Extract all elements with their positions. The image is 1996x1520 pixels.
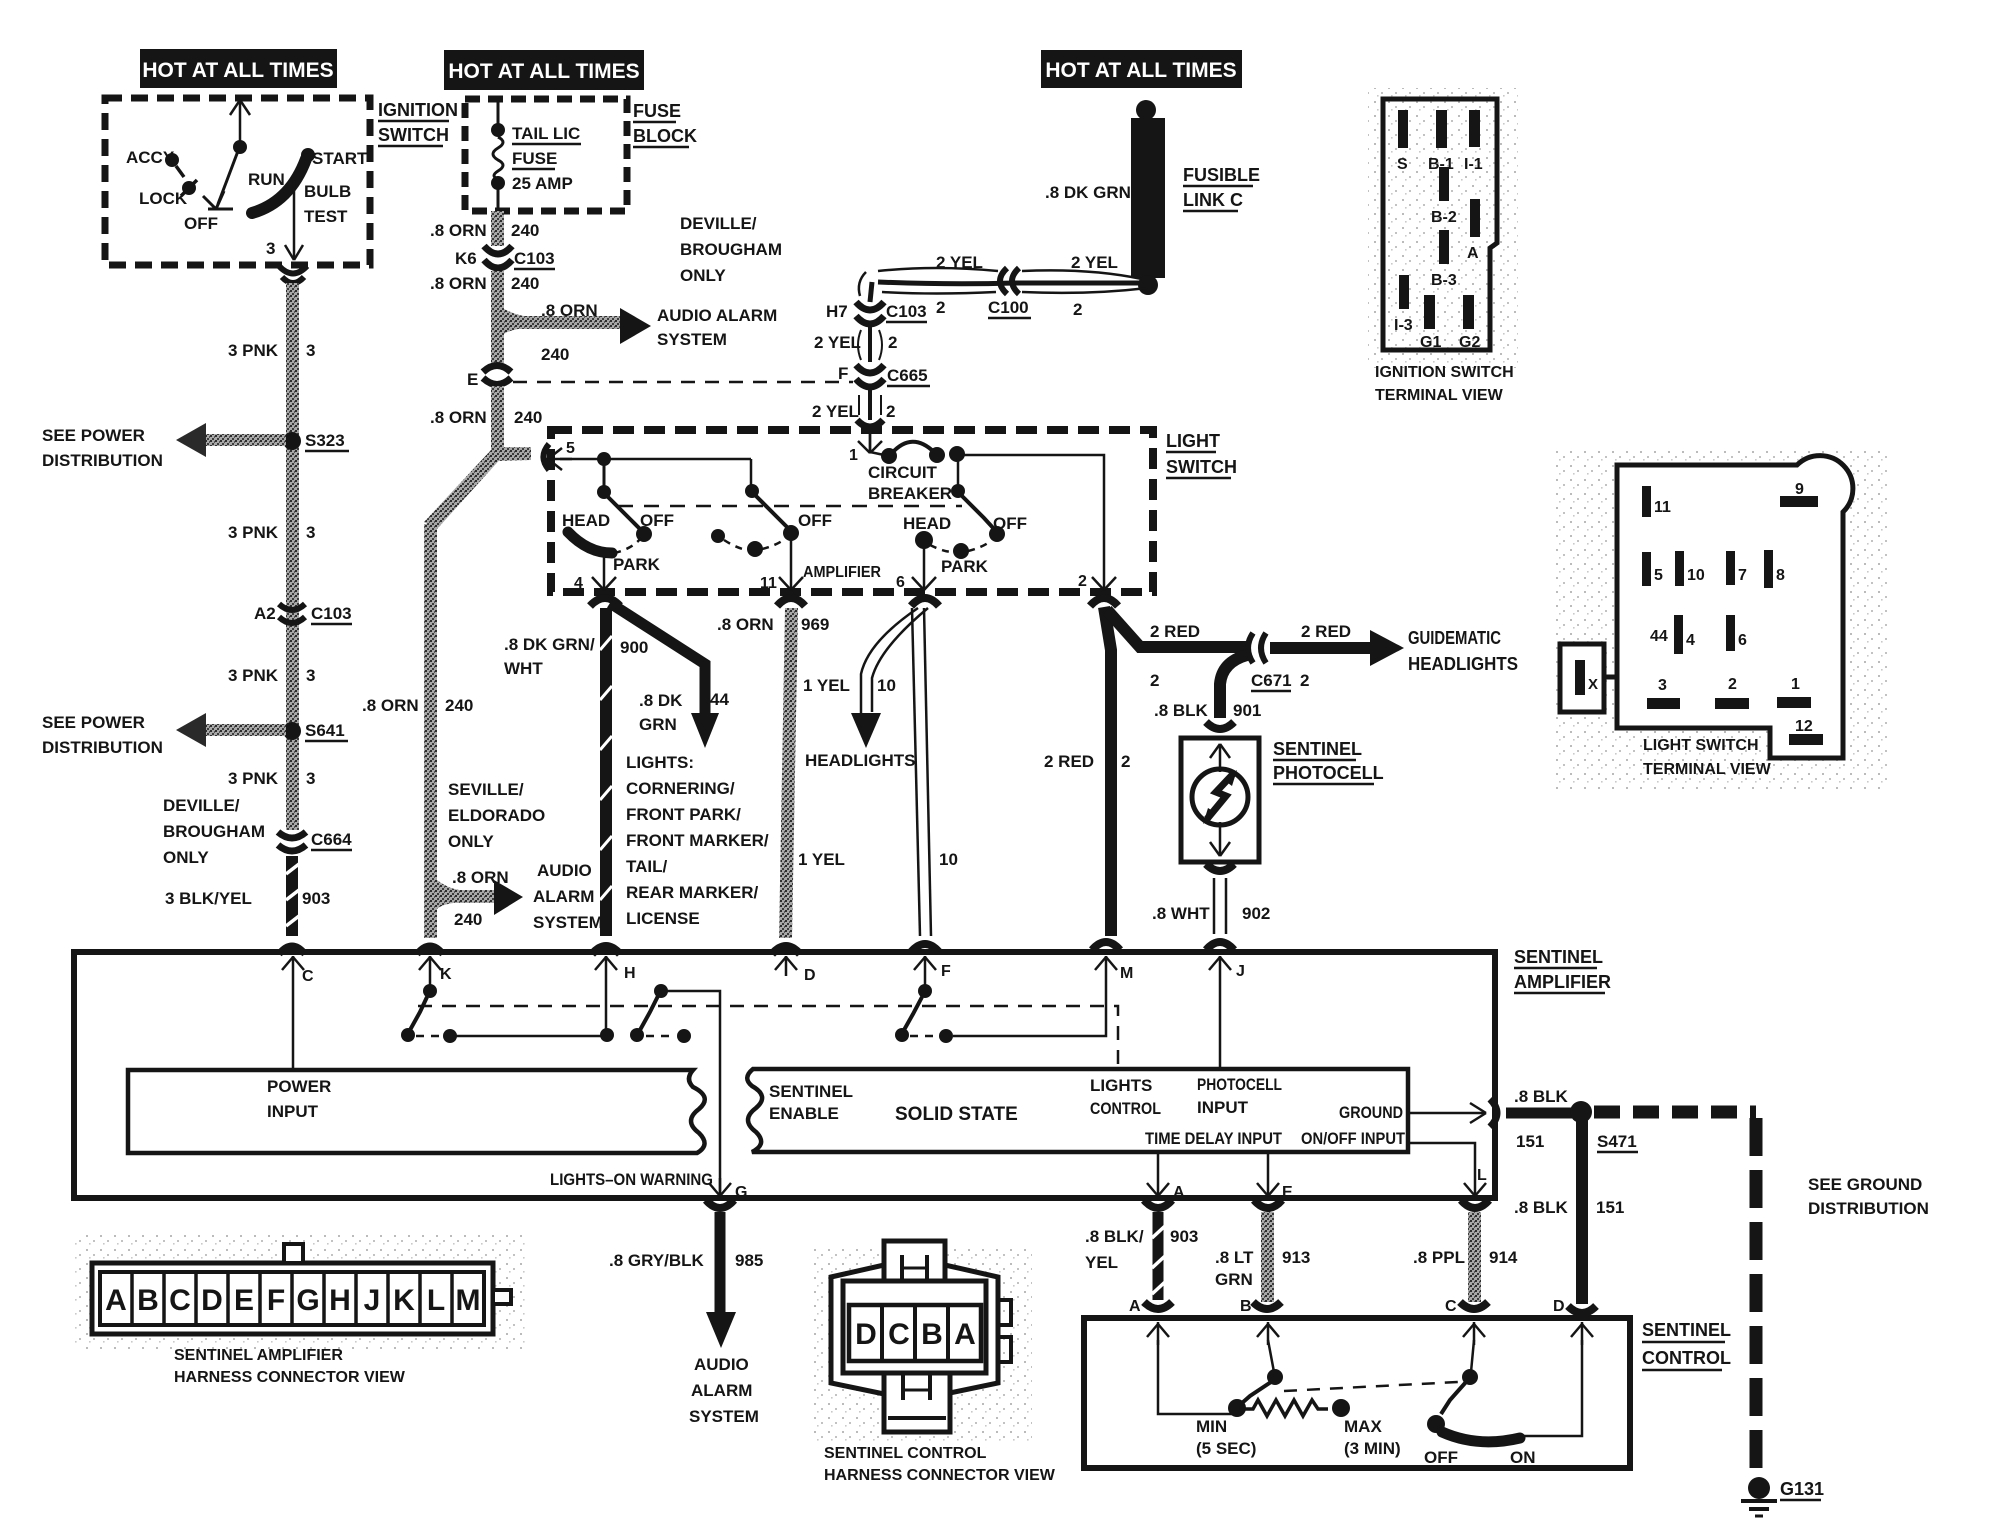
svg-text:3: 3 — [306, 769, 315, 788]
label SEVILLE/ELDORADO ONLY — [448, 780, 545, 851]
svg-text:J: J — [364, 1284, 381, 1317]
connector C100 — [1000, 268, 1019, 294]
svg-text:DEVILLE/: DEVILLE/ — [163, 796, 240, 815]
connector at light switch pin 6 — [911, 598, 939, 606]
svg-text:C: C — [888, 1318, 910, 1351]
ignition switch SW1 enclosure (dashed) — [105, 98, 370, 265]
pin H arrow — [592, 946, 620, 954]
node: pole 1 tap — [597, 452, 611, 466]
svg-text:9: 9 — [1795, 481, 1804, 498]
svg-text:GROUND: GROUND — [1339, 1103, 1403, 1122]
svg-text:.8 ORN: .8 ORN — [430, 221, 487, 240]
pin G2 — [1463, 295, 1474, 329]
svg-text:44: 44 — [1650, 628, 1668, 645]
svg-text:SENTINEL: SENTINEL — [1514, 947, 1603, 967]
wire: .8 BLK 901 from C671 down to photocell — [1220, 655, 1247, 718]
pin 8 — [1764, 550, 1773, 588]
svg-text:C100: C100 — [988, 298, 1029, 317]
svg-text:D: D — [855, 1318, 877, 1351]
amplifier U1 enclosure — [74, 952, 1495, 1198]
svg-text:TAIL/: TAIL/ — [626, 857, 668, 876]
svg-text:902: 902 — [1242, 904, 1270, 923]
svg-text:GRN: GRN — [639, 715, 677, 734]
pin J arrow — [1206, 942, 1234, 950]
wire: 2 YEL corner down to C103 — [870, 282, 872, 302]
svg-text:LIGHTS: LIGHTS — [1090, 1076, 1152, 1095]
connector at photocell bottom — [1206, 864, 1234, 871]
wire: pin H lead down to contact — [605, 976, 608, 1030]
connector at light switch pin 4 — [590, 598, 620, 606]
svg-text:CORNERING/: CORNERING/ — [626, 779, 735, 798]
svg-text:2: 2 — [1300, 671, 1309, 690]
svg-text:F: F — [838, 364, 848, 383]
connector pin E — [483, 366, 511, 385]
svg-text:INPUT: INPUT — [267, 1102, 319, 1121]
svg-text:SYSTEM: SYSTEM — [533, 913, 603, 932]
svg-text:HEADLIGHTS: HEADLIGHTS — [805, 751, 916, 770]
svg-text:2 RED: 2 RED — [1150, 622, 1200, 641]
pin F arrow — [911, 944, 939, 952]
wire: grey link to light switch pin 5 — [497, 447, 531, 461]
label 3 PNK 3 (seg 1) — [228, 341, 315, 360]
wire: heavy dashed ground lead to G131 — [1594, 1112, 1756, 1475]
label IGNITION SWITCH — [378, 100, 458, 146]
wire: mechanical link dashed (amplifier relay) — [418, 1006, 1118, 1066]
dashed position arc pole 3 — [953, 543, 969, 559]
svg-text:IGNITION SWITCH: IGNITION SWITCH — [1375, 364, 1514, 381]
wire: .8 ORN 240 from fuse block down (grey) — [491, 211, 504, 246]
svg-text:FUSE: FUSE — [633, 101, 681, 121]
wire: branch .8 ORN 240 to audio alarm system (grey arrow, lower) — [437, 880, 499, 909]
svg-text:1 YEL: 1 YEL — [798, 850, 845, 869]
svg-text:.8 DK GRN/: .8 DK GRN/ — [504, 635, 595, 654]
pin 6 — [1726, 615, 1735, 651]
photocell element (circle with bolt) — [1192, 769, 1248, 825]
svg-text:2: 2 — [1121, 752, 1130, 771]
label 3 PNK 3 (seg 2) — [228, 523, 315, 542]
svg-text:SENTINEL: SENTINEL — [1273, 739, 1362, 759]
svg-text:SYSTEM: SYSTEM — [657, 330, 727, 349]
middle frame — [843, 1281, 986, 1373]
pin 5 entry arrow — [544, 444, 550, 470]
svg-text:F: F — [941, 963, 951, 980]
svg-text:I-3: I-3 — [1394, 317, 1413, 334]
svg-text:A: A — [954, 1318, 976, 1351]
svg-text:OFF: OFF — [798, 511, 832, 530]
connector C103 pin K6 — [484, 246, 512, 268]
switch blade pole 3 (to OFF) — [961, 495, 995, 530]
svg-text:ELDORADO: ELDORADO — [448, 806, 545, 825]
wire: 2 YEL 2 between C103 and C665 — [868, 326, 872, 362]
svg-text:3: 3 — [306, 666, 315, 685]
svg-text:A: A — [1129, 1298, 1141, 1315]
wire: .8 ORN 240 riser to amplifier pin K (grey) — [424, 524, 437, 938]
svg-text:FRONT PARK/: FRONT PARK/ — [626, 805, 741, 824]
pin 11 — [1642, 486, 1651, 517]
connector body outline — [1383, 99, 1497, 350]
svg-text:I-1: I-1 — [1464, 156, 1483, 173]
svg-text:B: B — [137, 1284, 159, 1317]
svg-text:1: 1 — [1791, 676, 1800, 693]
resistor R1 rheostat MIN-MAX — [1245, 1400, 1328, 1416]
wire: .8 PPL 914 grey to control pin C — [1468, 1212, 1481, 1302]
splice S323 — [283, 432, 301, 450]
svg-text:G2: G2 — [1459, 334, 1480, 351]
wire: .8 ORN 969 grey riser to amplifier pin D — [779, 608, 798, 938]
svg-text:B: B — [1240, 1298, 1252, 1315]
wire: pole 2 to pin 11 (amplifier contact) — [779, 540, 803, 590]
svg-text:2 RED: 2 RED — [1301, 622, 1351, 641]
wire: rotor arm to OFF position (arrow) — [203, 151, 238, 209]
svg-text:RUN: RUN — [248, 170, 285, 189]
svg-text:FRONT MARKER/: FRONT MARKER/ — [626, 831, 769, 850]
svg-text:DISTRIBUTION: DISTRIBUTION — [42, 451, 163, 470]
svg-text:151: 151 — [1516, 1132, 1544, 1151]
svg-text:3: 3 — [306, 341, 315, 360]
svg-text:AMPLIFIER: AMPLIFIER — [1514, 972, 1611, 992]
wire: on/off input L lead — [1408, 1143, 1475, 1196]
pin X side key — [1560, 644, 1604, 712]
svg-text:.8 ORN: .8 ORN — [452, 868, 509, 887]
svg-text:CONTROL: CONTROL — [1642, 1348, 1731, 1368]
svg-text:240: 240 — [445, 696, 473, 715]
svg-text:ONLY: ONLY — [163, 848, 209, 867]
svg-text:PARK: PARK — [941, 557, 989, 576]
label FUSIBLE LINK C — [1183, 165, 1260, 211]
svg-text:1 YEL: 1 YEL — [803, 676, 850, 695]
wire: .8 BLK 151 (thick) to splice S471 — [1506, 1108, 1572, 1119]
wire: .8 ORN 240 below C103 (grey) — [491, 271, 504, 363]
svg-text:A: A — [1173, 1184, 1185, 1201]
pin M arrow — [1092, 942, 1120, 950]
svg-text:IGNITION: IGNITION — [378, 100, 458, 120]
connector at amplifier pin K — [417, 946, 443, 954]
svg-text:10: 10 — [1687, 567, 1705, 584]
pole 2 stem from bus corner — [750, 459, 753, 487]
svg-text:2 YEL: 2 YEL — [1071, 253, 1118, 272]
wire: breaker output bus to pin 2 riser — [961, 455, 1104, 588]
label LIGHTS list — [626, 753, 769, 928]
svg-text:INPUT: INPUT — [1197, 1098, 1249, 1117]
splice S641 — [283, 722, 301, 740]
svg-text:C: C — [1445, 1298, 1457, 1315]
connector C103 pin H7 — [856, 302, 884, 324]
dashed position arc pole 2 — [711, 529, 725, 543]
connector C665 pin F — [856, 365, 884, 387]
svg-text:A: A — [105, 1284, 127, 1317]
svg-text:2: 2 — [936, 298, 945, 317]
svg-text:AUDIO ALARM: AUDIO ALARM — [657, 306, 777, 325]
svg-text:ONLY: ONLY — [680, 266, 726, 285]
connector C671 — [1248, 633, 1266, 663]
svg-text:C103: C103 — [311, 604, 352, 623]
pin B-1 — [1436, 110, 1447, 148]
pin 5 — [1642, 552, 1651, 586]
relay contact: K pole — [423, 984, 437, 998]
node MIN terminal — [1228, 1399, 1246, 1417]
svg-text:913: 913 — [1282, 1248, 1310, 1267]
svg-text:PHOTOCELL: PHOTOCELL — [1273, 763, 1384, 783]
fusible link C (thick bar with end dots) — [1131, 100, 1165, 295]
wire: A lead to rheostat wiper rail — [1158, 1340, 1233, 1414]
wire: ignition sw terminal 3 down to pin — [285, 180, 303, 260]
svg-text:2: 2 — [1078, 573, 1087, 590]
wire: time delay input A lead — [1147, 1152, 1169, 1196]
svg-text:C664: C664 — [311, 830, 352, 849]
svg-text:985: 985 — [735, 1251, 763, 1270]
svg-text:240: 240 — [541, 345, 569, 364]
svg-text:3: 3 — [1658, 677, 1667, 694]
svg-text:OFF: OFF — [184, 214, 218, 233]
top tab — [884, 1241, 945, 1281]
pin 7 — [1726, 551, 1735, 585]
pin A entry arrow — [1147, 1322, 1169, 1345]
node HEAD pole 3 — [915, 531, 933, 549]
label 3 PNK 3 (seg 4) — [228, 769, 315, 788]
wire: pin F lead — [924, 976, 927, 986]
svg-text:S641: S641 — [305, 721, 345, 740]
svg-text:TIME DELAY INPUT: TIME DELAY INPUT — [1145, 1129, 1283, 1148]
svg-text:.8 WHT: .8 WHT — [1152, 904, 1210, 923]
label SENTINEL PHOTOCELL — [1273, 739, 1384, 784]
wire: bus from pin 5 across switch poles — [560, 458, 751, 461]
svg-text:C103: C103 — [886, 302, 927, 321]
connector at light switch pin 11 — [777, 598, 805, 606]
svg-text:TAIL LIC: TAIL LIC — [512, 124, 580, 143]
svg-text:CIRCUIT: CIRCUIT — [868, 463, 938, 482]
blade: on/off switch to OFF — [1441, 1382, 1466, 1414]
svg-text:POWER: POWER — [267, 1077, 331, 1096]
svg-text:L: L — [1477, 1167, 1487, 1184]
svg-text:OFF: OFF — [993, 514, 1027, 533]
svg-text:E: E — [234, 1284, 254, 1317]
wire: 2 RED riser to amplifier pin M (thick) — [1104, 607, 1111, 936]
svg-text:ALARM: ALARM — [691, 1381, 752, 1400]
svg-text:4: 4 — [1686, 632, 1695, 649]
label SEE POWER DISTRIBUTION (upper) — [42, 426, 163, 470]
pin I-1 — [1469, 110, 1480, 147]
pin G1 — [1424, 295, 1435, 329]
pin 1 entry arrow — [858, 434, 882, 453]
light switch SW2 enclosure (dashed) — [551, 430, 1153, 592]
connector C103 pin A2 — [279, 604, 305, 623]
svg-text:.8 BLK/: .8 BLK/ — [1085, 1227, 1144, 1246]
svg-text:G131: G131 — [1780, 1479, 1824, 1499]
wire: grey arrow to power distribution (S323) — [201, 434, 286, 446]
svg-text:C671: C671 — [1251, 671, 1292, 690]
svg-text:2 YEL: 2 YEL — [812, 402, 859, 421]
svg-text:K: K — [440, 966, 452, 983]
wire: grey diagonal down to K riser — [424, 450, 504, 529]
svg-text:7: 7 — [1738, 567, 1747, 584]
svg-text:C: C — [302, 968, 314, 985]
wire: dashed mechanical link to on/off switch — [1284, 1382, 1458, 1391]
wire: 2 RED to guidematic headlights (thick arrow) — [1270, 642, 1374, 654]
pin S — [1398, 110, 1408, 148]
label DEVILLE/BROUGHAM ONLY (left) — [163, 796, 265, 867]
relay contact: F pole — [904, 997, 922, 1030]
svg-text:FUSE: FUSE — [512, 149, 557, 168]
power label HOT AT ALL TIMES (right) — [1041, 50, 1242, 88]
label FUSE BLOCK — [633, 101, 697, 147]
svg-text:969: 969 — [801, 615, 829, 634]
svg-text:6: 6 — [1738, 632, 1747, 649]
svg-text:ON/OFF INPUT: ON/OFF INPUT — [1301, 1129, 1406, 1148]
svg-text:SEE POWER: SEE POWER — [42, 426, 145, 445]
svg-text:LINK C: LINK C — [1183, 190, 1243, 210]
svg-text:G: G — [735, 1184, 747, 1201]
svg-text:K6: K6 — [455, 249, 477, 268]
label SENTINEL AMPLIFIER — [1514, 947, 1611, 993]
svg-text:B-3: B-3 — [1431, 272, 1457, 289]
svg-text:2 RED: 2 RED — [1044, 752, 1094, 771]
svg-text:SOLID STATE: SOLID STATE — [895, 1104, 1018, 1125]
svg-text:M: M — [1120, 965, 1133, 982]
wire: branch .8 ORN 240 to audio alarm system (grey arrow) — [504, 309, 624, 334]
svg-text:3 BLK/YEL: 3 BLK/YEL — [165, 889, 252, 908]
power input section of amplifier — [128, 1070, 705, 1153]
svg-text:AMPLIFIER: AMPLIFIER — [803, 564, 881, 581]
svg-text:D: D — [1553, 1298, 1565, 1315]
svg-text:HEAD: HEAD — [903, 514, 951, 533]
svg-text:H: H — [624, 965, 636, 982]
node LOCK contact — [182, 181, 196, 195]
svg-text:11: 11 — [760, 575, 777, 592]
svg-text:TERMINAL VIEW: TERMINAL VIEW — [1643, 761, 1772, 778]
power label HOT AT ALL TIMES (middle) — [444, 50, 644, 90]
svg-text:2: 2 — [1728, 676, 1737, 693]
wire: 3 BLK/YEL 903 (striped) down to amplifier pin C — [286, 856, 299, 936]
wire: ON contact to D lead — [1524, 1340, 1582, 1436]
cavity frame DCBA — [849, 1305, 981, 1361]
switch blade pole 1 (to OFF) — [607, 496, 642, 531]
svg-text:BULB: BULB — [304, 182, 351, 201]
svg-text:D: D — [201, 1284, 223, 1317]
svg-text:C: C — [169, 1284, 191, 1317]
svg-text:.8 GRY/BLK: .8 GRY/BLK — [609, 1251, 704, 1270]
svg-text:SENTINEL: SENTINEL — [1642, 1320, 1731, 1340]
svg-text:H: H — [329, 1284, 351, 1317]
node START contact — [301, 148, 315, 162]
pin B-3 — [1439, 230, 1449, 264]
label LIGHT SWITCH — [1166, 431, 1237, 478]
svg-text:L: L — [427, 1284, 445, 1317]
svg-text:.8 BLK: .8 BLK — [1514, 1087, 1569, 1106]
svg-text:240: 240 — [454, 910, 482, 929]
node: pole 1 pivot — [597, 485, 611, 499]
svg-text:6: 6 — [896, 574, 905, 591]
svg-text:(3 MIN): (3 MIN) — [1344, 1439, 1401, 1458]
svg-text:C103: C103 — [514, 249, 555, 268]
wire: pin C lead into power input — [292, 976, 295, 1069]
wire: 1 YEL 10 branch to headlights (double line with arrow) — [861, 608, 928, 714]
wire: .8 BLK 151 thick riser from S471 down to control pin D — [1576, 1120, 1588, 1304]
svg-text:11: 11 — [1654, 499, 1671, 516]
svg-text:901: 901 — [1233, 701, 1261, 720]
wire: .8 ORN 240 below E (grey) — [491, 386, 504, 458]
wire: mechanical link (dashed) between poles — [618, 505, 962, 508]
svg-text:.8 ORN: .8 ORN — [717, 615, 774, 634]
side keys — [998, 1300, 1011, 1325]
wire: pole 3 HEAD contact to pin 6 — [912, 548, 936, 590]
svg-text:S: S — [1397, 156, 1408, 173]
blade: delay wiper to MIN — [1242, 1382, 1271, 1403]
svg-text:ALARM: ALARM — [533, 887, 594, 906]
svg-text:DISTRIBUTION: DISTRIBUTION — [42, 738, 163, 757]
svg-text:E: E — [1282, 1184, 1293, 1201]
svg-text:ENABLE: ENABLE — [769, 1104, 839, 1123]
svg-text:F: F — [267, 1284, 285, 1317]
svg-text:151: 151 — [1596, 1198, 1624, 1217]
splice S471 — [1570, 1101, 1592, 1123]
svg-text:LIGHT SWITCH: LIGHT SWITCH — [1643, 737, 1759, 754]
svg-text:4: 4 — [574, 575, 583, 592]
wire: ground output with arrow — [1408, 1103, 1486, 1123]
svg-text:REAR MARKER/: REAR MARKER/ — [626, 883, 759, 902]
sentinel photocell assembly — [1181, 738, 1259, 862]
svg-text:.8 PPL: .8 PPL — [1413, 1248, 1465, 1267]
wire: .8 BLK/YEL 903 striped to control pin A — [1152, 1212, 1165, 1300]
svg-text:3 PNK: 3 PNK — [228, 341, 279, 360]
wire: contact bus F to M — [953, 976, 1106, 1036]
pin C arrow — [282, 956, 304, 976]
svg-text:MIN: MIN — [1196, 1417, 1227, 1436]
svg-text:.8 ORN: .8 ORN — [541, 301, 598, 320]
position labels inside SW1 — [126, 148, 368, 233]
svg-text:ON: ON — [1510, 1448, 1536, 1467]
svg-text:SENTINEL: SENTINEL — [769, 1082, 853, 1101]
connector at light switch pin 2 — [1090, 598, 1118, 606]
svg-text:3: 3 — [266, 239, 275, 258]
svg-text:H7: H7 — [826, 302, 848, 321]
svg-text:LIGHTS–ON WARNING: LIGHTS–ON WARNING — [550, 1170, 713, 1189]
pin C entry arrow — [1463, 1322, 1485, 1345]
svg-text:BLOCK: BLOCK — [633, 126, 697, 146]
bottom tab — [884, 1373, 950, 1432]
svg-text:HOT AT ALL TIMES: HOT AT ALL TIMES — [448, 60, 639, 83]
svg-text:B: B — [921, 1318, 943, 1351]
cavity dividers — [132, 1272, 452, 1325]
svg-text:10: 10 — [939, 850, 958, 869]
wire: pin K lead — [429, 976, 432, 986]
svg-text:C665: C665 — [887, 366, 928, 385]
svg-text:HOT AT ALL TIMES: HOT AT ALL TIMES — [1045, 59, 1236, 82]
svg-text:2 YEL: 2 YEL — [936, 253, 983, 272]
svg-text:LOCK: LOCK — [139, 189, 188, 208]
pin 10 — [1675, 551, 1684, 586]
svg-text:YEL: YEL — [1085, 1253, 1118, 1272]
wire: pole 1 wiper to pin 4 — [592, 556, 616, 590]
svg-text:3 PNK: 3 PNK — [228, 523, 279, 542]
svg-text:240: 240 — [511, 221, 539, 240]
svg-text:DISTRIBUTION: DISTRIBUTION — [1808, 1199, 1929, 1218]
svg-text:ONLY: ONLY — [448, 832, 494, 851]
svg-text:3 PNK: 3 PNK — [228, 769, 279, 788]
wire: .8 DK GRN/WHT 900 striped riser to amplifier pin H — [600, 608, 612, 936]
label SENTINEL CONTROL — [1642, 1320, 1731, 1370]
internal leads with arrows — [1210, 744, 1230, 856]
svg-text:MAX: MAX — [1344, 1417, 1382, 1436]
fuse TAIL LIC FUSE 25 AMP — [493, 102, 503, 214]
svg-text:SENTINEL CONTROL: SENTINEL CONTROL — [824, 1445, 987, 1462]
svg-text:5: 5 — [1654, 567, 1663, 584]
svg-text:LICENSE: LICENSE — [626, 909, 700, 928]
wire: contact bus K to H — [456, 1035, 604, 1038]
pin K arrow — [419, 956, 441, 976]
pin A — [1470, 199, 1480, 237]
connector at light switch pin 1 — [857, 420, 883, 427]
svg-text:2: 2 — [1073, 300, 1082, 319]
